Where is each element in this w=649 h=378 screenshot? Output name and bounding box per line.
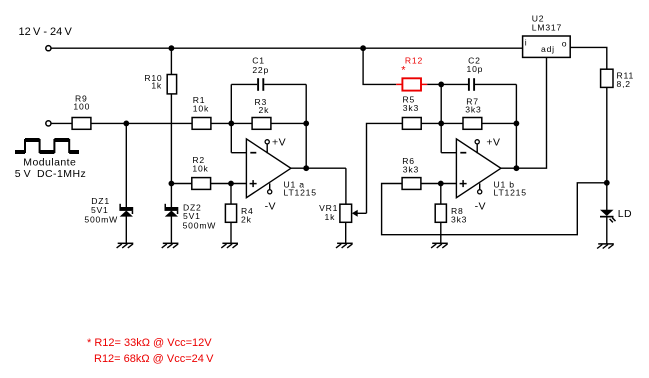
- wire rail to R10: [170, 48, 172, 74]
- svg-text:8,2: 8,2: [617, 79, 631, 89]
- resistor R9: [72, 118, 91, 130]
- wire R6 to plus node: [421, 183, 456, 185]
- svg-text:LD: LD: [618, 208, 632, 220]
- junction U1b output: [514, 165, 520, 171]
- svg-text:22p: 22p: [252, 65, 269, 75]
- resistor R10: [167, 75, 176, 94]
- wire VR1 to ground: [345, 222, 347, 243]
- zener DZ1: [119, 207, 133, 211]
- wire DZ1 to ground: [125, 216, 127, 243]
- resistor R5: [402, 118, 421, 130]
- svg-text:1k: 1k: [325, 212, 336, 222]
- junction R2 left node: [169, 181, 175, 187]
- ground R8: [432, 242, 448, 244]
- junction R12 branch: [360, 45, 366, 51]
- svg-text:2k: 2k: [259, 105, 270, 115]
- resistor R7: [463, 118, 482, 130]
- junction U1a output: [303, 165, 309, 171]
- wire R3 right: [271, 122, 306, 124]
- resistor R6: [402, 178, 421, 190]
- svg-text:i: i: [525, 37, 528, 47]
- wire R3 left: [231, 122, 252, 124]
- op-amp U1a: [246, 139, 291, 198]
- svg-text:3k3: 3k3: [403, 103, 419, 113]
- wire R7 right: [482, 122, 517, 124]
- op-amp U1b: [456, 139, 501, 198]
- resistor R11: [601, 69, 613, 87]
- svg-text:* R12= 33kΩ @ Vcc=12V: * R12= 33kΩ @ Vcc=12V: [87, 337, 212, 349]
- svg-text:o: o: [562, 39, 568, 49]
- wire minus input U1b: [441, 152, 456, 154]
- svg-text:5V1: 5V1: [91, 205, 109, 215]
- wire C2 right: [475, 83, 516, 85]
- ground DZ2: [163, 242, 179, 244]
- wire C1 right: [264, 83, 306, 85]
- wire C2 left: [441, 83, 468, 85]
- junction R7 right: [514, 121, 520, 127]
- wire R12 right stub: [421, 83, 427, 85]
- wire R1 to inverting node: [211, 122, 231, 124]
- svg-text:5 V DC-1MHz: 5 V DC-1MHz: [15, 168, 86, 180]
- wire R4 to ground: [230, 222, 232, 243]
- wire LED to ground: [606, 218, 608, 244]
- wire R2 to plus node: [211, 183, 247, 185]
- wire R7 left: [441, 122, 463, 124]
- wire stage2 feedback right vertical: [515, 84, 517, 168]
- svg-text:+V: +V: [272, 136, 286, 148]
- svg-text:100: 100: [73, 101, 90, 111]
- wire LM317 out: [570, 47, 607, 69]
- symbol square wave: [15, 140, 79, 152]
- IC U2 LM317: [523, 36, 571, 57]
- wire top supply rail: [51, 47, 523, 49]
- junction plus node U1b: [438, 181, 444, 187]
- svg-text:2k: 2k: [241, 215, 252, 225]
- svg-text:+V: +V: [486, 136, 500, 148]
- wire wiper riser to R5: [367, 123, 403, 213]
- wire R12 left stub: [396, 83, 402, 85]
- wire R10 to DZ2 node: [170, 94, 172, 207]
- potentiometer VR1: [340, 204, 352, 222]
- wire stage1 feedback right vertical: [305, 84, 307, 168]
- wire R5 right: [421, 122, 441, 124]
- resistor R3: [252, 118, 271, 130]
- zener DZ2: [165, 207, 179, 211]
- svg-text:R12= 68kΩ @ Vcc=24 V: R12= 68kΩ @ Vcc=24 V: [94, 353, 214, 365]
- junction R5 right: [438, 121, 444, 127]
- wire R6 loop: [382, 183, 607, 235]
- wire plus node to R4: [230, 184, 232, 205]
- wire stage2 feedback left vertical: [440, 84, 442, 152]
- junction inverting node U1a: [228, 121, 234, 127]
- svg-text:LM317: LM317: [532, 23, 562, 33]
- terminal modulation input: [46, 121, 51, 126]
- resistor R8: [435, 204, 446, 222]
- svg-text:adj: adj: [541, 44, 555, 54]
- svg-text:-V: -V: [265, 201, 276, 213]
- wire R12 to C2 node: [427, 83, 441, 85]
- svg-text:3k3: 3k3: [465, 105, 481, 115]
- svg-text:*: *: [401, 64, 406, 76]
- junction DZ1 tap: [123, 121, 129, 127]
- svg-text:LT1215: LT1215: [494, 188, 527, 198]
- wire R11 to LED: [606, 87, 608, 210]
- wire minus input U1a: [231, 152, 246, 154]
- terminal supply input: [46, 46, 51, 51]
- wire R2 left: [171, 183, 191, 185]
- wire U1a output: [291, 167, 346, 169]
- wire output to VR1: [345, 168, 347, 204]
- wire U1b output: [501, 167, 517, 169]
- junction R3 right: [303, 121, 309, 127]
- capacitor C2: [468, 78, 470, 91]
- resistor R1: [192, 118, 211, 130]
- wire R8 to ground: [440, 222, 442, 243]
- resistor R4: [225, 204, 236, 222]
- wire output to adj: [516, 57, 546, 168]
- svg-text:1k: 1k: [151, 81, 162, 91]
- svg-text:LT1215: LT1215: [284, 188, 317, 198]
- LED LD: [600, 210, 614, 216]
- wire input to R9: [51, 122, 72, 124]
- wire DZ2 to ground: [170, 216, 172, 243]
- ground R4: [222, 242, 238, 244]
- junction C2 left node: [438, 82, 444, 88]
- ground DZ1: [118, 242, 134, 244]
- wire plus node to R8: [440, 184, 442, 205]
- capacitor C1: [257, 78, 259, 91]
- svg-text:Modulante: Modulante: [23, 157, 76, 169]
- svg-text:-V: -V: [475, 201, 486, 213]
- svg-text:10k: 10k: [192, 163, 208, 173]
- ground LED: [598, 243, 614, 245]
- wire rail branch to R12: [363, 48, 396, 84]
- junction R10 top: [169, 45, 175, 51]
- junction loop tap: [604, 180, 610, 186]
- svg-text:500mW: 500mW: [84, 215, 118, 225]
- resistor R12: [402, 78, 421, 90]
- wire node to DZ1: [125, 123, 127, 207]
- wire C1 left: [231, 83, 257, 85]
- ground VR1: [337, 242, 353, 244]
- svg-text:500mW: 500mW: [183, 221, 217, 231]
- svg-text:10k: 10k: [193, 103, 209, 113]
- junction plus node U1a: [228, 181, 234, 187]
- svg-text:12 V - 24 V: 12 V - 24 V: [19, 26, 73, 38]
- resistor R2: [192, 178, 211, 190]
- svg-text:3k3: 3k3: [403, 164, 419, 174]
- wire stage1 feedback left vertical: [230, 84, 232, 152]
- wire R9 to R1: [91, 122, 192, 124]
- svg-text:R12: R12: [405, 56, 423, 66]
- svg-text:10p: 10p: [467, 64, 484, 74]
- svg-text:3k3: 3k3: [451, 214, 467, 224]
